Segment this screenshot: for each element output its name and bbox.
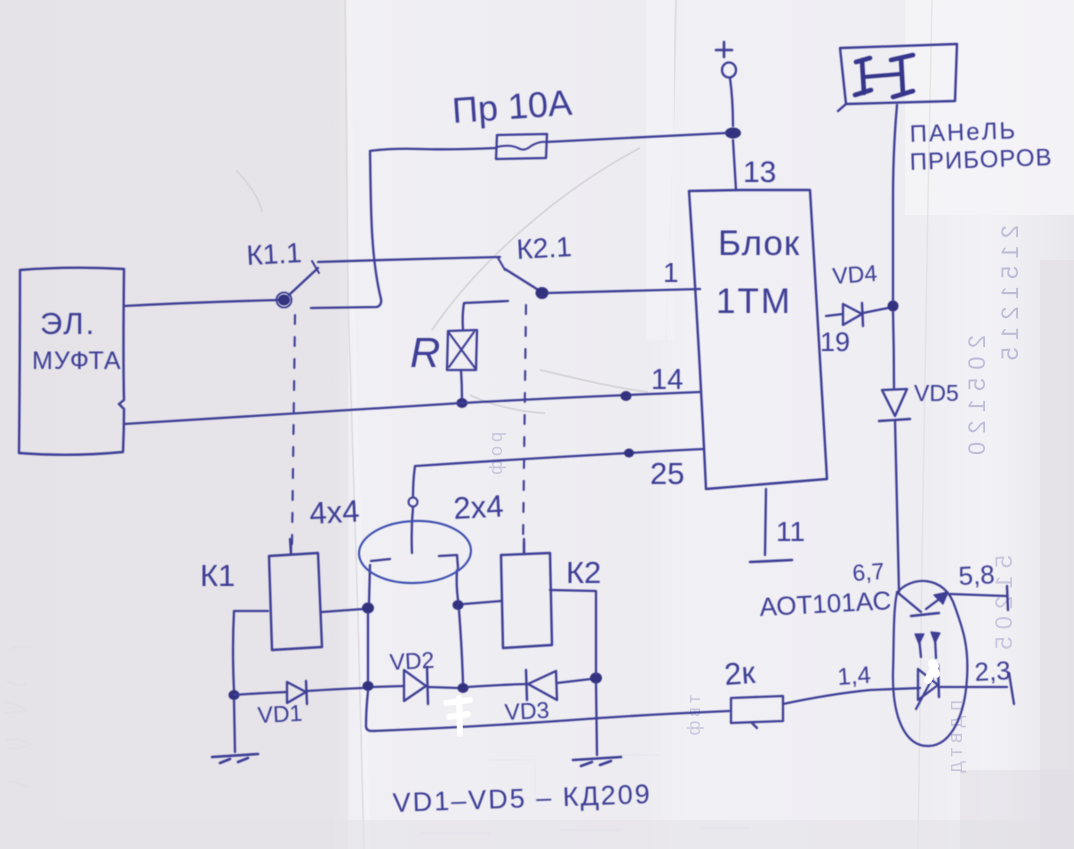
wire K1.1 to K2.1 xyxy=(318,257,500,262)
diode VD2 xyxy=(404,667,428,704)
diode VD5 xyxy=(879,389,910,421)
blok 1TM box xyxy=(689,190,827,489)
rail VD1 left segment xyxy=(234,692,287,695)
whiteout blob on LED xyxy=(928,663,936,680)
faint grid ghosts bottom middle xyxy=(420,755,750,833)
node K2-connector xyxy=(453,600,464,610)
contact K1.1 pivot xyxy=(278,295,290,306)
wire node down to ground xyxy=(596,683,597,755)
relay K1 box xyxy=(269,553,322,650)
wire K2 left xyxy=(464,601,501,604)
node K1-connector xyxy=(362,603,374,614)
switch K1.1 arm xyxy=(289,268,318,295)
svg-text:25: 25 xyxy=(650,456,684,491)
dashed link K2.1 to K2 xyxy=(523,305,526,545)
faint pencil curves top left xyxy=(236,148,648,413)
wire 25 corner down xyxy=(413,466,415,497)
rail node to VD2 xyxy=(373,686,404,687)
svg-text:ПРИБОРОВ: ПРИБОРОВ xyxy=(909,144,1053,176)
opto LED xyxy=(916,665,939,709)
left darker zone xyxy=(0,0,348,849)
el.mufta box xyxy=(19,268,124,455)
svg-text:2,3: 2,3 xyxy=(974,655,1012,687)
svg-text:VD5: VD5 xyxy=(914,380,959,406)
svg-text:роф: роф xyxy=(486,432,506,479)
svg-text:1,4: 1,4 xyxy=(837,662,872,691)
svg-text:5,8: 5,8 xyxy=(958,559,996,591)
ground pin11 xyxy=(750,560,792,562)
node rail-right xyxy=(590,673,602,684)
svg-text:6,7: 6,7 xyxy=(852,558,886,586)
wire 25 (blok to connector) xyxy=(416,449,704,466)
relay K2 top tick xyxy=(523,539,525,554)
svg-text:14: 14 xyxy=(651,364,683,396)
svg-text:ПАНеЛЬ: ПАНеЛЬ xyxy=(909,117,1017,148)
wire node down to rail center xyxy=(459,610,463,683)
svg-text:К2: К2 xyxy=(566,555,601,590)
faint marks bottom left xyxy=(4,646,32,788)
node on 14 wire xyxy=(621,391,632,401)
fuse Пр10А body xyxy=(496,134,547,159)
svg-text:К2.1: К2.1 xyxy=(516,231,573,265)
wire VD5 to opto xyxy=(895,420,899,592)
node R-14 xyxy=(457,398,468,408)
rail VD1-VD2 xyxy=(307,688,363,691)
center fold xyxy=(666,0,676,340)
connector left pin xyxy=(369,559,390,603)
svg-text:Блок: Блок xyxy=(718,224,800,263)
wire R top hook xyxy=(463,301,508,330)
svg-text:ЭЛ.: ЭЛ. xyxy=(40,306,96,341)
svg-text:пдвтд: пдвтд xyxy=(945,700,967,778)
wire K1 right xyxy=(322,609,363,612)
svg-text:твф: твф xyxy=(684,695,704,739)
wire 14 (mufta to blok) xyxy=(124,392,700,424)
wire down to VD4 node xyxy=(892,199,894,301)
wire + terminal to junction xyxy=(730,78,733,126)
svg-text:Пр 10А: Пр 10А xyxy=(451,82,574,131)
svg-text:4х4: 4х4 xyxy=(309,493,361,531)
wire K1 down to ground xyxy=(234,700,235,752)
lamp symbol H xyxy=(855,55,913,97)
svg-text:VD1: VD1 xyxy=(257,700,303,728)
svg-text:205120: 205120 xyxy=(964,335,991,463)
wire pin13 xyxy=(733,140,736,190)
svg-text:13: 13 xyxy=(743,156,776,189)
mirrored bleed-through column right side xyxy=(486,225,1024,778)
connector right pin xyxy=(439,555,458,600)
wire fuse to left bend xyxy=(370,148,496,151)
node VD4-right xyxy=(888,301,899,312)
wire VD4 from blok xyxy=(826,314,843,316)
ground K1 xyxy=(212,754,258,763)
wire VD4 node down to VD5 xyxy=(893,311,894,388)
diode VD4 xyxy=(843,303,888,326)
svg-text:2к: 2к xyxy=(723,655,757,692)
resistor 2k body xyxy=(731,696,783,728)
wire K1 left xyxy=(233,611,268,690)
svg-text:VD4: VD4 xyxy=(832,260,879,289)
wire node up to K2-right xyxy=(550,590,596,673)
crease line left fold xyxy=(349,0,368,849)
switch K2.1 arm xyxy=(505,269,540,291)
svg-text:МУФТА: МУФТА xyxy=(32,347,122,375)
node K1-rail xyxy=(229,690,240,700)
svg-text:К1: К1 xyxy=(200,558,235,593)
rail VD3 to right node xyxy=(557,679,591,683)
contact K2.1 fixed xyxy=(498,258,505,270)
right edge darker xyxy=(1040,260,1074,849)
relay K2 box xyxy=(501,553,552,648)
svg-text:2151215: 2151215 xyxy=(997,225,1024,367)
whiteout mark near VD3 xyxy=(446,698,470,734)
node rail-center xyxy=(458,683,469,693)
right bright band xyxy=(905,0,1074,215)
node on 25 wire xyxy=(624,449,634,458)
wire junction to fuse (top feed) xyxy=(546,133,726,142)
wire K2.1 to pin1 xyxy=(548,289,700,293)
wire el.mufta to K1.1 xyxy=(124,300,280,306)
resistor 2k left wire xyxy=(600,711,729,718)
wire panel down xyxy=(893,105,897,199)
node K2.1 pivot xyxy=(536,287,549,299)
svg-text:11: 11 xyxy=(776,516,805,547)
connector circle (blue pen) xyxy=(358,519,472,585)
wire LED to 2,3 terminal xyxy=(939,686,1007,688)
wire 2k to LED xyxy=(783,688,920,704)
svg-text:1: 1 xyxy=(663,257,679,288)
diode VD3 (points left) xyxy=(526,670,557,700)
svg-text:2х4: 2х4 xyxy=(453,488,505,526)
wire node down to rail xyxy=(367,613,369,681)
svg-text:1ТМ: 1ТМ xyxy=(716,282,792,321)
svg-text:VD3: VD3 xyxy=(504,697,550,725)
rail node to VD3 xyxy=(468,684,527,687)
svg-text:К1.1: К1.1 xyxy=(246,237,303,271)
light arrows xyxy=(915,632,940,658)
rail VD2 to node xyxy=(428,687,458,688)
opto envelope ellipse xyxy=(893,581,967,746)
connector center pin stub xyxy=(412,507,413,553)
diode VD1 xyxy=(287,681,307,704)
dashed link K1.1 to K1 xyxy=(292,315,295,546)
ground right xyxy=(573,757,621,766)
bottom right corner darker xyxy=(960,770,1074,849)
wire R bottom xyxy=(461,370,462,399)
svg-text:51205: 51205 xyxy=(991,555,1018,657)
wire pin11 xyxy=(765,489,766,555)
plus terminal xyxy=(716,42,736,78)
node rail-left-mid xyxy=(363,681,374,691)
wire curve down from fuse-left xyxy=(311,151,381,308)
connector center pin circle xyxy=(409,498,418,507)
resistor R body xyxy=(447,330,477,370)
node junction at 13 xyxy=(725,128,741,139)
wire rail bend to bottom rail xyxy=(366,691,600,731)
svg-text:VD2: VD2 xyxy=(389,647,435,675)
opto phototransistor xyxy=(897,586,1008,616)
svg-text:R: R xyxy=(410,329,440,376)
relay K1 top tick xyxy=(290,539,291,554)
panel box xyxy=(838,44,957,111)
svg-text:19: 19 xyxy=(820,327,850,357)
